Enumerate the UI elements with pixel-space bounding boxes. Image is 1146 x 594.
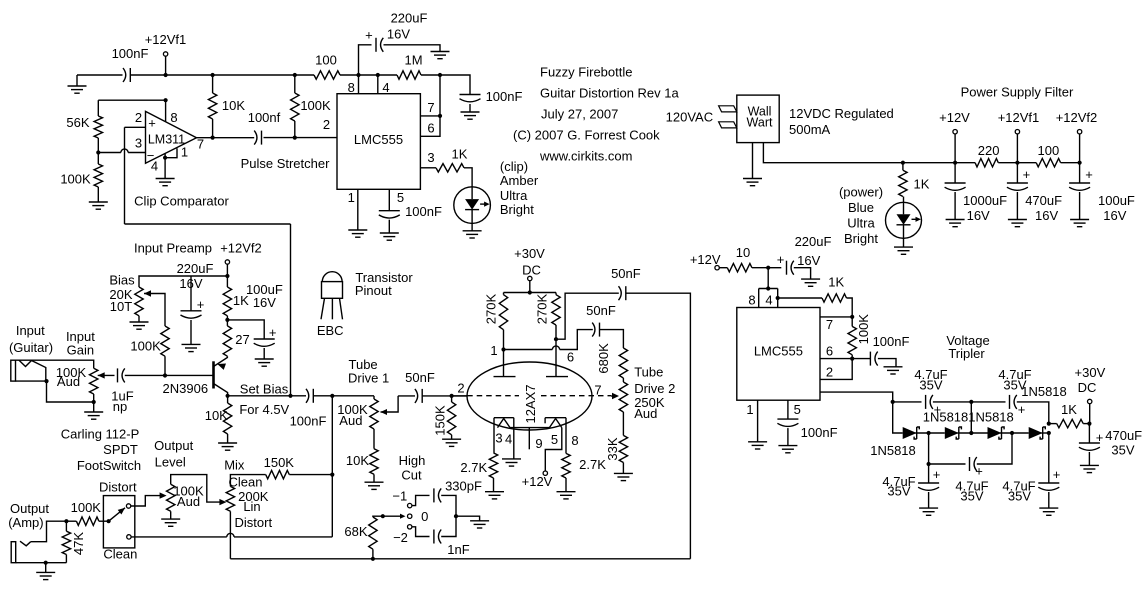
- svg-text:Tripler: Tripler: [948, 346, 985, 361]
- tube heater right: [549, 419, 561, 428]
- svg-text:100K: 100K: [71, 500, 102, 515]
- switch lever: [109, 508, 125, 521]
- svg-text:Aud: Aud: [339, 413, 362, 428]
- jack tip contact: [19, 360, 46, 381]
- resistor 10K (pulse): [208, 75, 245, 138]
- resistor 1K (power LED): [899, 163, 930, 197]
- ground below bias pot: [130, 316, 149, 329]
- svg-text:Input: Input: [16, 323, 45, 338]
- resistor 100K (pump): [848, 314, 871, 359]
- svg-text:47K: 47K: [71, 532, 86, 555]
- svg-text:SPDT: SPDT: [103, 442, 138, 457]
- capacitor 4.7uF 35V (res2): [1002, 467, 1060, 504]
- label Bright: [500, 202, 534, 217]
- switch throw Clean: [103, 535, 137, 562]
- label (clip): [500, 159, 528, 174]
- svg-text:Input Preamp: Input Preamp: [134, 241, 212, 256]
- wire 68K bottom to rail: [371, 549, 375, 561]
- svg-text:Drive 1: Drive 1: [348, 371, 389, 386]
- svg-text:Lin: Lin: [243, 499, 260, 514]
- potentiometer Mix 200K Lin: [226, 474, 272, 530]
- ground pin5 cap (pump): [778, 428, 797, 453]
- ic U3 LMC555 (pump): [737, 308, 820, 401]
- resistor 1M: [397, 53, 423, 80]
- node 47K junction: [64, 519, 76, 523]
- svg-text:+: +: [1085, 167, 1093, 182]
- wire 50nF to grid: [422, 395, 467, 397]
- svg-text:12AX7: 12AX7: [523, 384, 538, 423]
- svg-text:Amber: Amber: [500, 173, 539, 188]
- svg-text:56K: 56K: [66, 115, 89, 130]
- svg-text:16V: 16V: [797, 253, 820, 268]
- wire f2 to bias pot: [139, 276, 227, 287]
- capacitor 100nF (555 output filter): [460, 89, 523, 119]
- label Pinout: [355, 283, 392, 298]
- ground top-left bypass: [68, 75, 87, 93]
- wire 68K top to switch pole: [373, 514, 406, 519]
- svg-text:16V: 16V: [387, 27, 410, 42]
- svg-text:Ultra: Ultra: [847, 216, 875, 231]
- node output/10K: [211, 136, 215, 140]
- svg-text:470uF: 470uF: [1025, 193, 1062, 208]
- node pin4/1K tap: [776, 296, 780, 300]
- resistor 10K (drive1): [346, 429, 378, 482]
- capacitor 100nF bypass (top-left): [123, 68, 130, 82]
- capacitor 220uF 16V (555 top): [359, 11, 450, 75]
- wire coupling to loop: [626, 293, 691, 559]
- ground below 470uF: [1080, 465, 1099, 472]
- label pin 1: [181, 145, 188, 160]
- svg-text:Power Supply Filter: Power Supply Filter: [961, 85, 1074, 100]
- svg-text:www.cirkits.com: www.cirkits.com: [539, 149, 632, 164]
- wire distort throw to level pot: [131, 492, 167, 506]
- svg-text:+: +: [148, 116, 156, 131]
- resistor 100K (output): [71, 500, 109, 526]
- label pin 2: [135, 110, 142, 125]
- svg-text:Distort: Distort: [99, 480, 137, 495]
- wire level top to mix wiper: [171, 475, 227, 506]
- label Input Preamp: [134, 241, 212, 256]
- resistor 100 (filter): [1036, 143, 1060, 167]
- resistor 1K (30V out): [1049, 402, 1090, 428]
- svg-text:12VDC Regulated: 12VDC Regulated: [789, 106, 894, 121]
- wire pin1 to ground (pump): [746, 400, 767, 449]
- wire pin4 stub: [378, 75, 390, 95]
- wire 1M to node: [421, 74, 440, 76]
- svg-text:1K: 1K: [1061, 402, 1077, 417]
- wire cap to 555 pin2: [264, 137, 338, 139]
- resistor 100K (pulse stretcher): [291, 75, 331, 138]
- wire drive2 wiper: [611, 393, 619, 399]
- wire mix bottom to rail: [229, 511, 231, 559]
- label pin 2 (555): [323, 117, 330, 132]
- svg-text:6: 6: [427, 121, 434, 136]
- svg-text:35V: 35V: [887, 484, 910, 499]
- wire plate supply rail: [504, 292, 557, 294]
- ground below output jack: [36, 563, 55, 580]
- svg-text:Cut: Cut: [401, 467, 422, 482]
- wire d3 to node: [915, 431, 945, 435]
- svg-text:2: 2: [135, 110, 142, 125]
- svg-text:Bright: Bright: [844, 231, 878, 246]
- capacitor 220uF preamp: [177, 261, 214, 352]
- wire 100 to f2: [1061, 162, 1080, 164]
- label Clip Comparator: [134, 194, 229, 209]
- capacitor 100nF (pin5): [379, 204, 442, 219]
- svg-text:100nF: 100nF: [873, 334, 910, 349]
- potentiometer Tube Drive 1 100K Aud: [337, 399, 378, 429]
- svg-text:Tube: Tube: [634, 365, 663, 380]
- svg-text:35V: 35V: [1111, 443, 1134, 458]
- wire fly1 to node: [933, 400, 1006, 404]
- svg-text:8: 8: [571, 433, 578, 448]
- svg-text:100nF: 100nF: [112, 46, 149, 61]
- svg-text:Wart: Wart: [747, 115, 773, 129]
- svg-text:100nF: 100nF: [405, 204, 442, 219]
- svg-text:35V: 35V: [960, 489, 983, 504]
- svg-text:Ultra: Ultra: [500, 188, 528, 203]
- wire pin5 stub: [389, 189, 404, 210]
- svg-text:LMC555: LMC555: [354, 132, 403, 147]
- wire pin6 stub (pump): [820, 344, 854, 361]
- svg-text:Pulse Stretcher: Pulse Stretcher: [241, 156, 331, 171]
- label Tripler: [948, 346, 985, 361]
- wire pin1 to ground: [348, 189, 368, 237]
- wire d4 to node: [957, 431, 987, 435]
- wire 220 to f1: [998, 162, 1036, 164]
- ground below res1: [919, 492, 938, 515]
- node clean tap: [330, 394, 334, 398]
- svg-text:+: +: [197, 297, 205, 312]
- potentiometer Output Level 100K Aud: [167, 484, 205, 512]
- switch throw Distort: [99, 480, 137, 509]
- capacitor 100uF preamp: [227, 282, 282, 366]
- svg-text:Set Bias: Set Bias: [240, 382, 289, 397]
- wire pin1 stub: [163, 148, 177, 159]
- wire clean throw line with hop: [131, 533, 332, 537]
- plug prong upper: [719, 106, 737, 112]
- label Drive 1: [348, 371, 389, 386]
- resistor 10 (pump): [727, 245, 752, 272]
- ground right cathode: [557, 492, 576, 499]
- wire pin5 heater to +12V: [545, 428, 562, 471]
- wall wart PS1: [737, 95, 779, 143]
- label Voltage: [946, 333, 989, 348]
- wire pin3 to diode row: [893, 402, 903, 433]
- wire C to +12Vf1 node: [130, 74, 165, 76]
- svg-text:Bright: Bright: [500, 202, 534, 217]
- capacitor 100nf coupling: [248, 110, 281, 145]
- resistor 47K: [62, 521, 86, 563]
- capacitor 100nF set bias: [290, 389, 327, 429]
- svg-text:10: 10: [736, 245, 750, 260]
- svg-text:10K: 10K: [205, 408, 228, 423]
- ground below amber LED: [463, 223, 482, 238]
- capacitor 470uF 16V: [1007, 163, 1062, 227]
- svg-text:LM311: LM311: [148, 133, 185, 147]
- wire pin9 stub: [529, 428, 542, 452]
- svg-text:470uF: 470uF: [1105, 428, 1142, 443]
- svg-text:Gain: Gain: [67, 342, 94, 357]
- ic U2 LMC555 (pulse stretcher): [337, 94, 420, 190]
- wire pin8-pin4 rail: [359, 74, 378, 76]
- jack J2 output: [11, 542, 16, 563]
- wire gain wiper: [98, 372, 115, 378]
- wire d6 to riser: [1041, 431, 1051, 435]
- svg-text:33K: 33K: [605, 437, 620, 460]
- label Transistor: [355, 270, 413, 285]
- label Ultra power: [847, 216, 875, 231]
- node power LED tap: [901, 161, 905, 165]
- node 1K out tap: [1047, 422, 1051, 426]
- resistor 1K (pump): [778, 274, 853, 317]
- ground below level pot: [161, 511, 180, 526]
- title www.cirkits.com: [539, 149, 632, 164]
- svg-text:Clean: Clean: [229, 474, 263, 489]
- switch S1 footswitch box: [103, 496, 134, 548]
- svg-text:(clip): (clip): [500, 159, 528, 174]
- label SPDT: [103, 442, 138, 457]
- svg-text:270K: 270K: [484, 293, 499, 324]
- capacitor 220uF (pump): [768, 234, 831, 286]
- svg-text:100K: 100K: [856, 314, 871, 345]
- node pin1 junction: [490, 343, 505, 358]
- ground below preamp 10K: [218, 443, 237, 450]
- wire to output jack: [31, 521, 67, 542]
- ground below res2: [1039, 492, 1058, 515]
- wire drive1 wiper: [381, 396, 399, 415]
- svg-text:+: +: [777, 252, 785, 267]
- svg-text:220uF: 220uF: [177, 261, 214, 276]
- wire +12V rail: [903, 162, 975, 164]
- label High: [399, 453, 426, 468]
- node 30V out: [1087, 422, 1091, 426]
- node 56K/100K divider: [96, 138, 100, 155]
- wire divider to pin3 with hop: [98, 149, 145, 153]
- plug prong lower: [719, 122, 737, 128]
- switch pole node: [107, 519, 111, 523]
- svg-text:July 27, 2007: July 27, 2007: [541, 107, 618, 122]
- svg-text:LMC555: LMC555: [754, 344, 803, 359]
- svg-text:1K: 1K: [914, 177, 930, 192]
- label Cut: [401, 467, 422, 482]
- resistor 270K (right plate): [535, 293, 561, 326]
- wire rail right: [166, 74, 314, 76]
- svg-text:8: 8: [748, 293, 755, 308]
- svg-text:50nF: 50nF: [611, 266, 641, 281]
- transistor pinout legs: [321, 298, 343, 319]
- svg-text:8: 8: [170, 110, 177, 125]
- transistor pinout case: [322, 272, 343, 299]
- svg-text:100nf: 100nf: [248, 110, 281, 125]
- svg-text:8: 8: [348, 80, 355, 95]
- svg-text:100uF: 100uF: [1098, 193, 1135, 208]
- potentiometer Bias 20K 10T: [109, 273, 143, 316]
- node pin4 rail: [376, 73, 380, 77]
- svg-text:+: +: [1053, 467, 1061, 482]
- wire feedback horizontal: [125, 223, 291, 225]
- svg-text:100: 100: [1038, 143, 1060, 158]
- resistor 56K: [66, 98, 167, 138]
- wire grid input: [452, 395, 468, 397]
- node +12Vf1/rail junction: [164, 73, 168, 77]
- ground below op-amp: [156, 179, 175, 186]
- svg-text:+: +: [975, 463, 983, 478]
- svg-text:+: +: [365, 28, 373, 43]
- ground below 100K: [89, 187, 108, 209]
- svg-text:+: +: [269, 325, 277, 340]
- svg-text:+: +: [1096, 430, 1104, 445]
- capacitor 4.7uF 35V (fly1): [914, 367, 947, 417]
- svg-text:4: 4: [151, 158, 158, 173]
- svg-text:3: 3: [495, 431, 502, 446]
- node 150K/grid junction: [450, 394, 454, 398]
- svg-text:Clip Comparator: Clip Comparator: [134, 194, 229, 209]
- label Ultra: [500, 188, 528, 203]
- resistor 27: [223, 326, 250, 356]
- wire wall wart ground lead: [752, 143, 754, 179]
- wire output sleeve: [16, 561, 67, 565]
- label For 4.5V: [239, 402, 289, 417]
- wire LM311 output: [197, 137, 255, 139]
- wire distort return rail: [230, 558, 690, 560]
- svg-text:1N5818: 1N5818: [923, 410, 969, 425]
- svg-text:+: +: [1023, 167, 1031, 182]
- label + input: [148, 116, 156, 131]
- wire pin8/4 bar: [759, 288, 778, 290]
- svg-text:3: 3: [135, 136, 142, 151]
- svg-text:np: np: [113, 399, 127, 414]
- svg-text:+12V: +12V: [522, 474, 553, 489]
- label pin 2 tube: [457, 381, 464, 396]
- capacitor 470uF 35V (out): [1079, 424, 1142, 466]
- svg-text:Distort: Distort: [235, 515, 273, 530]
- wire pin3 stub: [420, 150, 436, 168]
- potentiometer Input Gain 100K Aud: [56, 329, 98, 404]
- label 12VDC Regulated: [789, 106, 894, 121]
- wire mix top to 150K: [230, 475, 265, 487]
- led D1 amber clip: [454, 187, 491, 224]
- ground left cathode: [485, 492, 504, 499]
- wire 150K to clean line: [289, 474, 332, 476]
- svg-text:1000uF: 1000uF: [963, 193, 1007, 208]
- tube plate right: [546, 376, 568, 378]
- svg-text:Output: Output: [10, 501, 49, 516]
- svg-text:10K: 10K: [222, 98, 245, 113]
- node 150K/clean junction: [330, 473, 334, 477]
- resistor 270K (left plate): [484, 293, 508, 330]
- svg-text:Drive 2: Drive 2: [634, 381, 675, 396]
- svg-text:High: High: [399, 453, 426, 468]
- svg-text:2: 2: [826, 364, 833, 379]
- resistor 33K: [605, 412, 628, 473]
- wire set bias out: [228, 395, 306, 397]
- svg-text:−1: −1: [392, 489, 407, 504]
- power +12Vf1 terminal: [145, 32, 187, 75]
- svg-text:4: 4: [765, 293, 772, 308]
- wire node to pins 8/4: [766, 268, 770, 291]
- power +12V terminal (pump): [690, 252, 727, 270]
- label Output2: [154, 438, 193, 453]
- wire 10 to node: [752, 266, 770, 270]
- svg-text:(Guitar): (Guitar): [9, 340, 53, 355]
- capacitor 100uF 16V: [1069, 163, 1135, 227]
- svg-text:2.7K: 2.7K: [460, 460, 487, 475]
- svg-text:220uF: 220uF: [391, 11, 428, 26]
- resistor 220 (filter): [975, 143, 999, 167]
- ground heater pin4: [502, 459, 521, 466]
- power +12Vf2 terminal (preamp): [220, 241, 262, 276]
- node collector Set Bias: [226, 394, 230, 398]
- wire pin1 output with hop: [504, 330, 593, 350]
- resistor 2.7K (left cathode): [460, 453, 497, 492]
- label Amber: [500, 173, 539, 188]
- capacitor 4.7uF 35V (fly2): [998, 367, 1031, 417]
- node +12Vf2 feed: [225, 274, 229, 278]
- svg-text:2.7K: 2.7K: [579, 457, 606, 472]
- svg-text:6: 6: [567, 350, 574, 365]
- label Output: [10, 501, 49, 516]
- capacitor 4.7uF 35V (res1): [882, 467, 940, 499]
- wire pin4 to ground: [164, 154, 166, 179]
- label (Guitar): [9, 340, 53, 355]
- wire 50nF to 680K: [600, 330, 624, 348]
- wire 100K to base node: [163, 356, 167, 377]
- svg-text:50nF: 50nF: [405, 370, 435, 385]
- resistor 100 (555 supply): [314, 53, 340, 80]
- svg-text:7: 7: [826, 317, 833, 332]
- svg-text:Clean: Clean: [103, 546, 137, 561]
- svg-text:1: 1: [348, 190, 355, 205]
- svg-text:4: 4: [505, 432, 512, 447]
- svg-text:16V: 16V: [1035, 208, 1058, 223]
- svg-text:Level: Level: [155, 455, 186, 470]
- wire pin4 heater lead: [505, 418, 514, 459]
- svg-text:1N5818: 1N5818: [870, 443, 916, 458]
- wire left plate lead: [503, 330, 505, 377]
- ground below gain pot: [84, 402, 103, 419]
- svg-text:16V: 16V: [967, 208, 990, 223]
- wire pin3 cathode lead: [494, 418, 503, 453]
- wire 100 to pin8: [340, 74, 359, 76]
- wire pin8 V+: [165, 100, 167, 121]
- svg-text:220uF: 220uF: [795, 234, 832, 249]
- wire pin7 riser: [439, 75, 441, 116]
- wire fly-node riser: [970, 402, 972, 433]
- capacitor 100nF (pump timing): [852, 334, 909, 374]
- svg-text:150K: 150K: [433, 405, 448, 436]
- svg-text:220: 220: [978, 143, 1000, 158]
- transistor Q1 2N3906: [163, 356, 228, 396]
- svg-text:7: 7: [427, 100, 434, 115]
- label pin 3: [135, 136, 142, 151]
- svg-text:Output: Output: [154, 438, 193, 453]
- label 120VAC: [666, 110, 713, 125]
- node tube drive1 pot top: [373, 396, 375, 399]
- svg-text:16V: 16V: [1103, 208, 1126, 223]
- svg-text:−2: −2: [393, 530, 408, 545]
- resistor 10K (preamp): [205, 396, 232, 443]
- svg-text:5: 5: [397, 190, 404, 205]
- svg-text:For 4.5V: For 4.5V: [239, 402, 289, 417]
- wire cap to clean node: [313, 395, 374, 397]
- svg-text:2: 2: [323, 117, 330, 132]
- resistor 100K (divider): [60, 153, 102, 188]
- ground below 33K: [614, 473, 633, 480]
- capacitor 50nF drive1: [398, 370, 435, 403]
- svg-text:10T: 10T: [110, 299, 132, 314]
- svg-text:2: 2: [457, 381, 464, 396]
